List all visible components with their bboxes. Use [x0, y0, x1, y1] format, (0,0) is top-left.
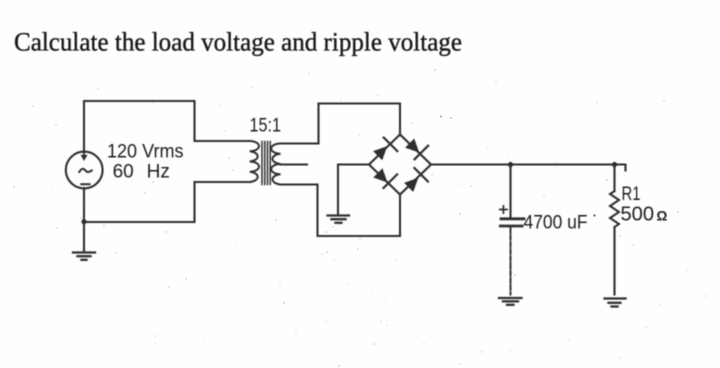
wire secondary top	[281, 104, 401, 144]
node junction at source bottom	[81, 219, 86, 224]
capacitor C1 bottom lead	[510, 228, 512, 295]
wire source bottom	[83, 188, 85, 251]
svg-text:60Hz: 60Hz	[113, 161, 170, 182]
capacitor plus sign	[500, 206, 507, 213]
scan artifact dot after uF	[593, 214, 595, 216]
wire output rail	[431, 165, 626, 171]
ground (bridge left)	[328, 216, 350, 223]
wire secondary center tap	[281, 164, 308, 166]
ground (resistor)	[605, 299, 626, 307]
transformer T1 secondary coil	[271, 144, 280, 185]
diode D4 (bottom to right)	[405, 168, 428, 191]
diode D2 (top to right)	[406, 140, 428, 160]
svg-text:15:1: 15:1	[250, 115, 282, 136]
node junction at capacitor	[508, 162, 513, 167]
resistor R1 bottom lead	[613, 227, 615, 295]
node junction at resistor	[612, 162, 617, 167]
wire bridge left to ground	[338, 165, 369, 216]
capacitor C1 top lead	[509, 165, 511, 218]
wire bottom-left loop	[84, 182, 250, 222]
svg-text:Ω: Ω	[657, 208, 668, 223]
svg-text:500: 500	[621, 204, 655, 226]
resistor R1 zigzag	[610, 191, 619, 227]
svg-text:120 Vrms: 120 Vrms	[107, 141, 184, 162]
transformer T1 primary coil	[250, 141, 259, 182]
svg-text:Calculate the load voltage and: Calculate the load voltage and ripple vo…	[14, 28, 462, 57]
svg-text:R1: R1	[622, 184, 641, 205]
ground (source)	[73, 253, 95, 260]
transformer core	[262, 142, 270, 185]
diode D1 (left to top)	[374, 138, 397, 160]
AC source V1	[66, 152, 103, 189]
ground (capacitor)	[499, 298, 522, 305]
wire secondary bottom	[281, 185, 401, 237]
bridge diamond wires	[369, 135, 431, 195]
scan noise speckles	[13, 66, 706, 367]
wire top-left loop	[84, 101, 250, 152]
resistor R1 top lead	[613, 165, 615, 192]
diode D3 (left to bottom)	[374, 169, 397, 188]
svg-text:4700 uF: 4700 uF	[524, 213, 588, 234]
capacitor C1 plates	[500, 219, 524, 226]
